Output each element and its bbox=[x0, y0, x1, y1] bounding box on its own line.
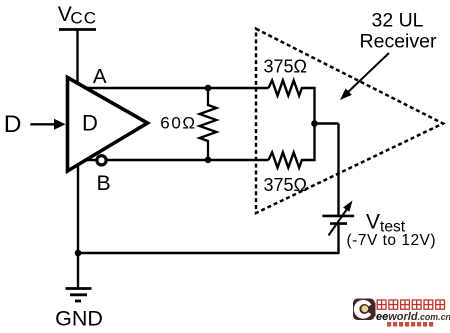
svg-text:D: D bbox=[82, 111, 98, 136]
svg-text:60Ω: 60Ω bbox=[160, 114, 196, 133]
svg-text:375Ω: 375Ω bbox=[264, 175, 308, 195]
svg-text:eeworld.com.cn: eeworld.com.cn bbox=[376, 311, 450, 323]
svg-text:(-7V to 12V): (-7V to 12V) bbox=[347, 232, 437, 249]
svg-text:Receiver: Receiver bbox=[360, 31, 437, 53]
svg-text:GND: GND bbox=[55, 306, 103, 330]
svg-text:B: B bbox=[97, 171, 111, 195]
svg-text:32 UL: 32 UL bbox=[371, 10, 423, 32]
svg-text:A: A bbox=[93, 65, 107, 88]
svg-text:375Ω: 375Ω bbox=[264, 57, 308, 77]
svg-text:D: D bbox=[4, 111, 22, 138]
